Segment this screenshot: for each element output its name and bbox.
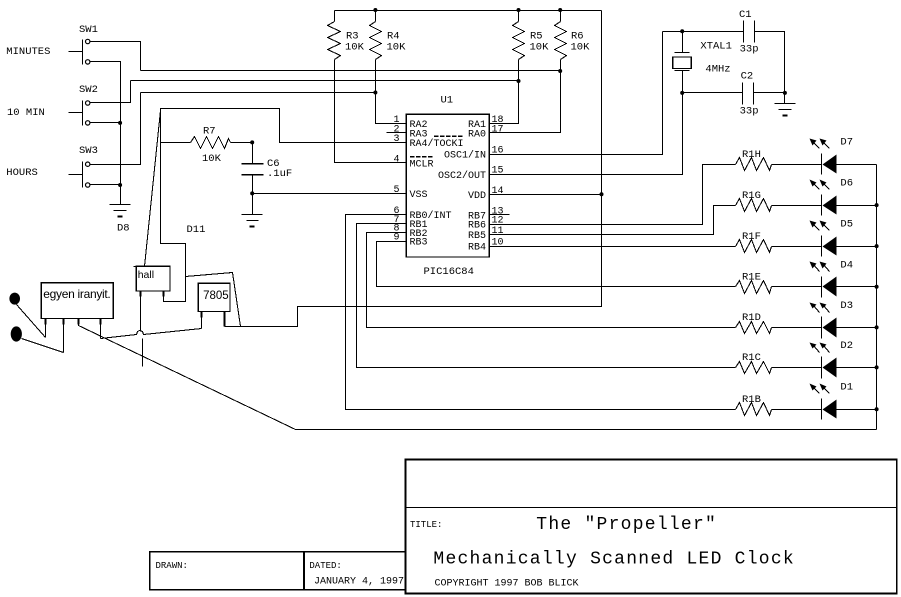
box hall sensor	[134, 266, 137, 268]
junction VDD	[600, 192, 604, 196]
svg-text:5: 5	[393, 185, 399, 196]
wire D3 to bus	[837, 327, 877, 329]
svg-text:VSS: VSS	[410, 190, 428, 201]
svg-text:D4: D4	[840, 259, 853, 271]
svg-text:R1D: R1D	[742, 312, 761, 324]
svg-text:D11: D11	[187, 224, 206, 236]
svg-text:hall: hall	[138, 269, 154, 281]
wire D2 to bus	[837, 367, 877, 369]
wire SW3 bottom	[90, 184, 121, 186]
wire U1 to R1F	[490, 246, 736, 248]
wire bus bottom return	[296, 429, 877, 431]
wire U1 to R1H	[490, 165, 736, 225]
junction rail R4	[373, 8, 377, 12]
wire hall left lead	[140, 291, 142, 332]
wire SW1 bottom	[90, 62, 121, 185]
svg-text:DATED:: DATED:	[309, 561, 341, 571]
wire R1G to D6	[772, 205, 822, 207]
junction rail R5	[517, 8, 521, 12]
svg-text:RB4: RB4	[468, 243, 486, 254]
wire pin15 OSC2	[490, 93, 683, 175]
svg-text:33p: 33p	[740, 44, 759, 56]
wire D4 to bus	[837, 286, 877, 288]
resistor R1F	[736, 240, 772, 253]
wire 7805 input lead	[201, 312, 203, 329]
svg-text:MCLR: MCLR	[410, 159, 434, 170]
wire hall net from R7 corner	[145, 111, 161, 267]
junction	[118, 121, 122, 125]
wire C6 to VSS	[253, 193, 407, 195]
svg-text:C2: C2	[741, 71, 754, 83]
junction bus	[875, 365, 879, 369]
wire U1 to R1G	[490, 206, 736, 235]
wire ground stem	[120, 185, 122, 205]
drawn box	[150, 552, 304, 590]
svg-text:MINUTES: MINUTES	[6, 46, 50, 58]
wire U1 to R1C	[357, 224, 736, 368]
wire R7 node down to hall	[161, 143, 186, 302]
svg-text:R1H: R1H	[742, 149, 761, 161]
crystal XTAL1	[663, 31, 744, 33]
svg-text:OSC1/IN: OSC1/IN	[444, 150, 486, 162]
junction R6/RA0	[558, 69, 562, 73]
junction bus	[875, 407, 879, 411]
svg-text:10K: 10K	[202, 153, 222, 165]
junction C6/VSS	[250, 191, 254, 195]
wire R1B to D1	[772, 409, 822, 411]
wire R6 to RA0	[490, 60, 561, 133]
wire R5 to RA1	[490, 60, 519, 124]
U1 TOCKI overline	[434, 135, 463, 137]
resistor R1H	[736, 158, 772, 171]
svg-text:JANUARY 4, 1997: JANUARY 4, 1997	[314, 577, 404, 588]
svg-text:4MHz: 4MHz	[705, 64, 730, 76]
LED D1	[821, 399, 823, 420]
resistor R1B	[736, 403, 772, 416]
wire pin13 stub	[490, 214, 510, 216]
resistor R1D	[736, 322, 772, 334]
LED D4	[821, 277, 823, 298]
svg-text:R1C: R1C	[742, 352, 761, 364]
LED D6	[821, 195, 823, 216]
svg-text:10 MIN: 10 MIN	[7, 107, 45, 119]
junction	[118, 183, 122, 187]
wire VDD top rail	[335, 10, 602, 12]
svg-text:RB6: RB6	[468, 221, 486, 232]
wire SW3 top	[90, 93, 141, 165]
svg-text:HOURS: HOURS	[6, 167, 38, 179]
LED D7	[821, 154, 823, 175]
svg-text:11: 11	[492, 226, 504, 237]
wire U1 to R1B	[346, 215, 736, 410]
wire net SW3 to R4/RA2	[141, 92, 376, 94]
junction bus	[875, 203, 879, 207]
svg-text:R1E: R1E	[742, 272, 761, 284]
wire C2 right to ground	[754, 92, 785, 94]
svg-text:DRAWN:: DRAWN:	[156, 561, 188, 571]
junction rail R6	[558, 8, 562, 12]
resistor R4	[375, 11, 377, 22]
wire pin2 stub	[387, 132, 407, 134]
svg-text:D3: D3	[840, 300, 853, 312]
svg-text:10K: 10K	[530, 42, 550, 54]
svg-text:RB5: RB5	[468, 231, 486, 242]
ground near C2	[775, 103, 796, 105]
wire return diagonal to rectifier	[79, 319, 296, 430]
svg-text:VDD: VDD	[468, 191, 486, 202]
svg-text:14: 14	[492, 186, 504, 197]
junction bus	[875, 244, 879, 248]
LED D5	[821, 236, 823, 257]
svg-text:D8: D8	[117, 223, 130, 235]
switch SW2	[82, 101, 84, 126]
svg-text:The "Propeller": The "Propeller"	[536, 515, 717, 535]
svg-text:R1B: R1B	[742, 394, 761, 406]
svg-text:10K: 10K	[387, 42, 407, 54]
svg-text:D2: D2	[840, 340, 853, 352]
capacitor C6	[252, 143, 254, 164]
svg-text:10K: 10K	[345, 42, 365, 54]
wire C1 right	[755, 32, 785, 93]
dated box	[304, 552, 406, 590]
wire SW1 top to node	[90, 42, 141, 71]
svg-text:17: 17	[492, 124, 504, 135]
wire net SW2 to R5/RA1	[131, 80, 519, 82]
svg-text:D5: D5	[840, 219, 853, 231]
wire D1 to bus	[837, 409, 877, 411]
junction R4/RA2	[373, 91, 377, 95]
terminal blob 1	[9, 293, 20, 305]
svg-text:D7: D7	[840, 137, 853, 149]
svg-text:RA4/TOCKI: RA4/TOCKI	[410, 138, 464, 150]
wire blob1 to rectifier	[17, 305, 46, 338]
wire 7805 output lead	[224, 312, 226, 327]
junction bus	[875, 285, 879, 289]
title block outer box	[406, 460, 897, 594]
wire R4 to RA2	[376, 60, 407, 124]
capacitor C2	[683, 92, 743, 94]
op-amp U1 PIC16C84 body	[406, 114, 489, 257]
wire D6 to bus	[837, 205, 877, 207]
svg-text:33p: 33p	[740, 106, 759, 118]
wire rectifier stubs	[45, 319, 47, 338]
svg-text:.1uF: .1uF	[267, 168, 292, 180]
resistor R5	[518, 11, 520, 22]
resistor R1G	[736, 199, 772, 212]
svg-text:C1: C1	[739, 9, 752, 21]
resistor R6	[560, 11, 562, 22]
switch SW1	[82, 40, 84, 65]
wire D7 to bus	[837, 164, 877, 166]
wire LED anode bus	[876, 165, 878, 430]
svg-text:10K: 10K	[571, 42, 591, 54]
wire SW2 bottom	[90, 122, 121, 124]
wire R3 to MCLR	[335, 60, 407, 163]
ground D8	[110, 204, 131, 206]
LED D3	[821, 317, 823, 339]
svg-text:R1G: R1G	[742, 190, 761, 202]
LED D2	[821, 357, 823, 379]
svg-text:3: 3	[393, 134, 399, 145]
svg-text:SW3: SW3	[79, 145, 98, 157]
wire R7 net top	[161, 109, 407, 143]
title block divider	[406, 507, 897, 509]
junction R7/C6	[250, 140, 254, 144]
junction R5/RA1	[517, 79, 521, 83]
svg-text:TITLE:: TITLE:	[410, 520, 442, 530]
wire R1D to D3	[772, 327, 822, 329]
svg-text:D1: D1	[840, 382, 853, 394]
svg-text:XTAL1: XTAL1	[700, 41, 732, 53]
svg-text:egyen iranyit.: egyen iranyit.	[43, 287, 110, 301]
regulator 7805 box	[198, 283, 230, 311]
wire R1F to D5	[772, 246, 822, 248]
wire rectifier gnd tilted line with hop over hall lead	[101, 329, 202, 339]
svg-text:RA0: RA0	[468, 129, 486, 140]
svg-text:OSC2/OUT: OSC2/OUT	[438, 170, 486, 182]
svg-text:U1: U1	[441, 95, 454, 107]
ground under C6	[252, 194, 254, 215]
svg-text:SW2: SW2	[79, 84, 98, 96]
junction XTAL top	[680, 29, 684, 33]
box egyen iranyit (rectifier)	[41, 283, 113, 319]
wire pin14 VDD	[490, 194, 602, 196]
junction XTAL bottom	[680, 91, 684, 95]
wire net SW1 to R6/RA0	[141, 70, 561, 72]
resistor R7	[161, 142, 191, 144]
wire pin5 VSS (drawn above) / pin16 OSC1	[490, 32, 663, 155]
svg-text:COPYRIGHT 1997 BOB BLICK: COPYRIGHT 1997 BOB BLICK	[435, 579, 579, 590]
svg-text:R1F: R1F	[742, 231, 761, 243]
U1 MCLR overline	[410, 156, 433, 158]
wire VDD riser to 7805	[225, 11, 602, 327]
resistor R1E	[736, 281, 772, 294]
resistor R1C	[736, 362, 772, 374]
svg-text:4: 4	[393, 154, 399, 165]
resistor R3	[334, 11, 336, 22]
svg-text:D6: D6	[840, 178, 853, 190]
junction bus	[875, 325, 879, 329]
svg-text:RB3: RB3	[410, 238, 428, 249]
svg-text:SW1: SW1	[79, 24, 98, 36]
capacitor C1	[743, 21, 745, 43]
svg-text:R7: R7	[203, 126, 216, 138]
wire R1H to D7	[772, 164, 822, 166]
svg-text:Mechanically Scanned LED Clock: Mechanically Scanned LED Clock	[433, 550, 795, 570]
wire R1E to D4	[772, 286, 822, 288]
wire U1 to R1D	[367, 233, 736, 328]
svg-text:PIC16C84: PIC16C84	[424, 266, 474, 278]
svg-text:15: 15	[492, 166, 504, 177]
wire blob2 to rectifier	[22, 339, 64, 353]
wire hall branch to 7805 input	[186, 273, 241, 327]
wire SW2 top	[90, 81, 131, 103]
switch SW3	[82, 162, 84, 188]
wire U1 to R1E	[377, 242, 736, 287]
wire R1C to D2	[772, 367, 822, 369]
svg-text:7805: 7805	[203, 290, 229, 302]
junction C2/ground	[783, 91, 787, 95]
wire D5 to bus	[837, 246, 877, 248]
terminal blob 2	[11, 326, 22, 341]
